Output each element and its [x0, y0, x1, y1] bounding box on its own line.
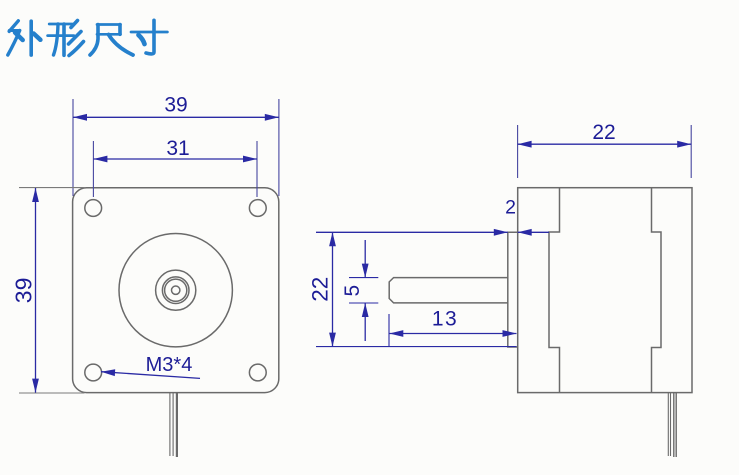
- front plate outline: [73, 188, 279, 393]
- dim 31: dimension line: [93, 156, 257, 163]
- dim 39 left: dimension line: [32, 188, 39, 393]
- shaft chamfer circle: [165, 279, 187, 301]
- shaft side: [389, 278, 508, 303]
- svg-text:2: 2: [505, 197, 516, 219]
- mounting hole bottom-right: [249, 364, 266, 381]
- dim 22 top: dimension line: [518, 141, 692, 148]
- bearing boss circle: [156, 270, 196, 310]
- mounting hole top-left: [85, 200, 102, 217]
- svg-text:M3*4: M3*4: [146, 354, 193, 376]
- dim 13: dimension line: [389, 330, 516, 337]
- svg-text:5: 5: [341, 285, 364, 297]
- dim 5: extension lines: [349, 278, 378, 303]
- mounting hole top-right: [249, 200, 266, 217]
- svg-text:22: 22: [592, 121, 615, 144]
- mounting hole bottom-left: [85, 364, 102, 381]
- dim 39 top: extension lines: [73, 99, 279, 196]
- side body outline: [518, 188, 692, 393]
- svg-text:22: 22: [307, 277, 332, 302]
- dim 39 top: dimension line: [73, 114, 279, 121]
- svg-text:39: 39: [10, 278, 36, 304]
- dim 5: dimension line and arrows: [362, 240, 369, 341]
- side left inner profile: [549, 188, 560, 393]
- svg-text:31: 31: [166, 137, 189, 160]
- dim 22 left: bottom extension line: [316, 346, 517, 348]
- svg-text:13: 13: [432, 308, 458, 331]
- dim 22 left: dimension line: [329, 232, 336, 346]
- svg-text:39: 39: [164, 94, 187, 117]
- label M3*4 leader arrow: [101, 369, 200, 378]
- dim 13: extension line: [388, 314, 390, 347]
- side view group: [389, 188, 692, 457]
- pilot boss side: [508, 232, 518, 347]
- dim 2: leader lines and arrows: [316, 229, 549, 236]
- dim 22 top: extension lines: [518, 125, 692, 178]
- side right inner profile: [652, 188, 662, 393]
- front wires: [169, 393, 171, 456]
- title 外形尺寸: [8, 20, 168, 55]
- dim 31: extension lines: [93, 141, 257, 197]
- pilot boss circle: [119, 234, 232, 347]
- front view group: [73, 188, 279, 457]
- side wires: [667, 393, 669, 456]
- dim 39 left: extension lines: [19, 188, 85, 393]
- shaft circle: [162, 277, 189, 304]
- center hole circle: [172, 286, 180, 294]
